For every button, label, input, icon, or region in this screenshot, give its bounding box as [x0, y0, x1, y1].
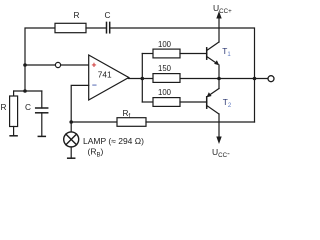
wire op-amp output [129, 78, 269, 80]
svg-text:+: + [92, 60, 97, 70]
node output terminal (open circle) [268, 76, 274, 82]
svg-text:R: R [74, 10, 80, 20]
wire resistor bank left vertical [141, 54, 143, 103]
resistor 100 (top row) [153, 49, 180, 58]
wire Rf return to feedback column [146, 121, 255, 123]
wire between R and C [86, 27, 106, 29]
node junction dot at + input tap [23, 63, 27, 67]
node junction dot at emitters/output [217, 77, 221, 81]
svg-text:−: − [92, 80, 97, 90]
resistor R (top) [55, 23, 86, 32]
svg-text:150: 150 [158, 64, 172, 73]
power rail Ucc+ arrow [216, 11, 221, 42]
svg-text:100: 100 [158, 40, 172, 49]
wire row3 to T2 base [180, 101, 207, 103]
wire row1 to T1 base [180, 53, 207, 55]
transistor Q2 T2 (PNP) [207, 79, 220, 139]
resistor 150 (middle row) [153, 74, 180, 83]
resistor Rf [117, 118, 146, 127]
ground (below lamp) [68, 157, 75, 159]
node junction dot at resistor bank [141, 77, 145, 81]
lamp RB [64, 122, 79, 158]
node junction dot at feedback column [253, 77, 257, 81]
ground (below R) [10, 135, 17, 137]
wire top feedback right segment [110, 28, 254, 122]
svg-text:100: 100 [158, 88, 172, 97]
node junction dot at lamp/Rf [69, 120, 73, 124]
wire row3 left stub [142, 101, 153, 103]
node input terminal (open circle) [55, 62, 60, 67]
resistor R (shunt, bottom-left) [10, 91, 18, 136]
svg-text:R: R [1, 102, 7, 112]
wire RC shunt top [14, 90, 42, 92]
capacitor C (shunt, bottom-left) [36, 91, 48, 136]
svg-text:LAMP (≈ 294 Ω): LAMP (≈ 294 Ω) [83, 136, 144, 146]
resistor 100 (bottom row) [153, 98, 180, 107]
transistor Q1 T1 (NPN) [207, 42, 220, 79]
wire row1 left stub [142, 53, 153, 55]
wire to non-inverting input [25, 64, 89, 66]
op-amp U1 741 [89, 55, 129, 100]
svg-text:741: 741 [98, 70, 112, 80]
capacitor C (top) [107, 22, 110, 32]
svg-text:C: C [105, 10, 111, 20]
ground (below C) [38, 135, 45, 137]
power rail Ucc- arrow [216, 137, 221, 145]
node junction dot at RC shunt [23, 89, 27, 93]
wire top feedback left segment [25, 28, 55, 91]
wire inverting input to lamp node [71, 85, 89, 122]
wire lamp node to Rf [71, 121, 117, 123]
svg-text:C: C [25, 102, 31, 112]
